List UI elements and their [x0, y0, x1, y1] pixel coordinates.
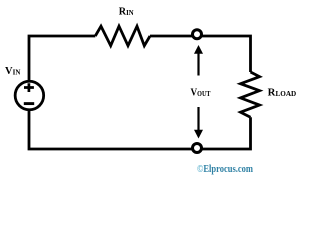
- wire: RLOAD bottom to bottom-right corner, bottom wire, up left vertical lower: [29, 109, 251, 149]
- svg-text:VOUT: VOUT: [191, 88, 211, 99]
- node: VOUT top terminal (open circle): [193, 30, 202, 39]
- svg-text:VIN: VIN: [5, 66, 20, 77]
- plus terminal mark of source VIN: [24, 83, 34, 92]
- wire: top-left run (left vertical upper + top wire to resistor): [29, 36, 95, 82]
- minus terminal mark of source VIN: [24, 102, 34, 105]
- voltage source VIN circle: [15, 81, 44, 110]
- resistor RIN zigzag: [95, 26, 150, 46]
- svg-text:RLOAD: RLOAD: [268, 88, 297, 99]
- node: VOUT bottom terminal (open circle): [193, 144, 202, 153]
- wire: top wire from resistor to top-right corner and down to RLOAD: [150, 36, 251, 72]
- svg-text:RIN: RIN: [119, 7, 134, 18]
- svg-text:©Elprocus.com: ©Elprocus.com: [197, 163, 253, 175]
- resistor RLOAD vertical zigzag: [241, 72, 260, 117]
- VOUT down arrow: [197, 107, 199, 130]
- VOUT up arrow: [197, 53, 199, 76]
